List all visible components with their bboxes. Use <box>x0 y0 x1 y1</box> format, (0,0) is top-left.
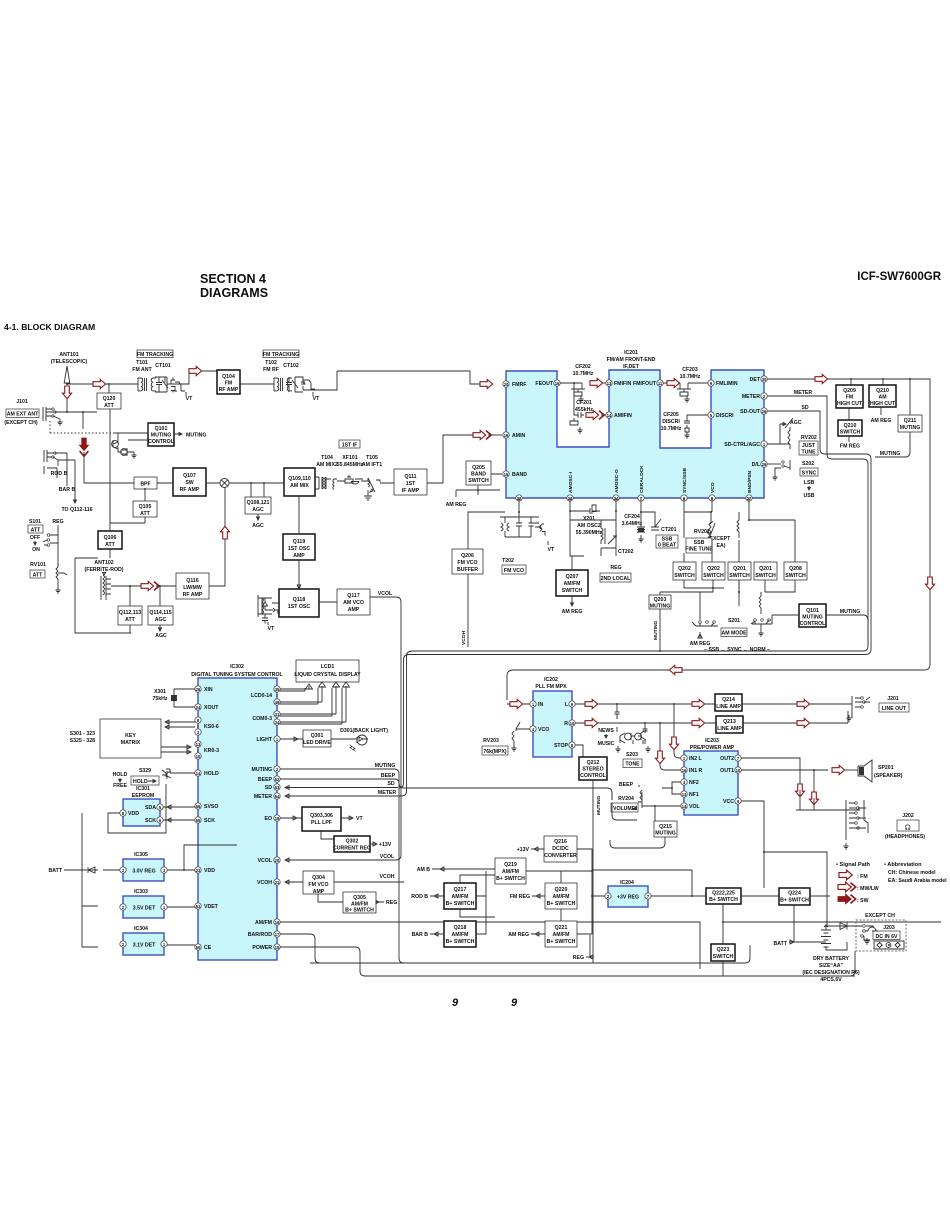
pin 15 BAND <box>503 471 509 477</box>
svg-text:RV101: RV101 <box>30 562 46 568</box>
svg-text:ROD B: ROD B <box>51 471 68 477</box>
svg-text:RF AMP: RF AMP <box>219 387 239 393</box>
svg-text:J101: J101 <box>16 399 28 405</box>
Q118 1ST OSC <box>279 589 319 617</box>
svg-text:MUTING: MUTING <box>840 609 860 615</box>
COM0-3 pins <box>274 711 280 717</box>
svg-text:VDET: VDET <box>204 904 219 910</box>
svg-text:CT101: CT101 <box>155 363 171 369</box>
svg-text:SSB: SSB <box>694 540 705 546</box>
AM osc tank <box>570 520 617 548</box>
varactor 2 <box>295 377 305 392</box>
svg-text:B+ SWITCH: B+ SWITCH <box>780 898 809 904</box>
svg-text:DIAGRAMS: DIAGRAMS <box>200 286 268 300</box>
svg-text:B+ SWITCH: B+ SWITCH <box>547 901 576 907</box>
svg-text:LCD0-14: LCD0-14 <box>251 693 272 699</box>
svg-text:Q205: Q205 <box>472 465 485 471</box>
svg-text:AGC: AGC <box>155 617 167 623</box>
svg-text:RF AMP: RF AMP <box>180 487 200 493</box>
FM arrow into 9 <box>667 378 680 387</box>
varactor VT <box>167 377 175 393</box>
svg-text:FM VCO: FM VCO <box>504 568 524 574</box>
R out <box>575 722 716 724</box>
Q301 LED DRIVE <box>303 730 331 747</box>
svg-text:Q215: Q215 <box>659 824 672 830</box>
svg-text:SWITCH: SWITCH <box>703 573 724 579</box>
svg-text:Q104: Q104 <box>222 374 235 380</box>
svg-text:VCOH: VCOH <box>461 630 467 645</box>
svg-text:0 BEAT: 0 BEAT <box>658 543 677 549</box>
svg-text:AM/FM: AM/FM <box>502 869 519 875</box>
svg-text:CE: CE <box>204 945 212 951</box>
svg-text:PRE/POWER AMP: PRE/POWER AMP <box>690 745 735 751</box>
svg-text:POWER: POWER <box>252 945 272 951</box>
svg-text:Q114,115: Q114,115 <box>149 610 171 616</box>
svg-text:ATT: ATT <box>104 403 115 409</box>
svg-text:FM/AM FRONT-END: FM/AM FRONT-END <box>607 357 656 363</box>
jack rod/bar symbol <box>44 450 55 462</box>
svg-text:MUTING: MUTING <box>653 621 659 640</box>
svg-text:VCO: VCO <box>538 727 549 733</box>
Q305 AM/FM B+ SWITCH <box>343 892 376 913</box>
svg-text:FM: FM <box>846 395 854 401</box>
Q210 AM HIGH CUT <box>869 385 896 407</box>
svg-text:BAR B: BAR B <box>59 487 76 493</box>
pin 52 BEEP <box>274 776 280 782</box>
Q205 BAND SWITCH <box>466 461 491 485</box>
Q219 AM/FM B+ SWITCH <box>495 858 526 884</box>
pin 16 AM/FM <box>274 919 280 925</box>
svg-text:BPF: BPF <box>140 482 150 488</box>
pin 20 VCOL <box>274 857 280 863</box>
svg-text:METER: METER <box>742 394 760 400</box>
svg-text:ATT: ATT <box>33 573 44 579</box>
svg-text:+3V REG: +3V REG <box>617 895 639 901</box>
pin 51 VDET <box>195 903 201 909</box>
Q117 AM VCO AMP <box>337 589 370 615</box>
pin 30 DET <box>761 376 767 382</box>
svg-text:Q305: Q305 <box>353 895 366 901</box>
svg-text:SD: SD <box>801 405 808 411</box>
svg-text:Q303,306: Q303,306 <box>310 813 333 819</box>
svg-text:SVSO: SVSO <box>204 804 218 810</box>
svg-text:Q108,121: Q108,121 <box>247 500 270 506</box>
svg-text:SCK: SCK <box>145 818 156 824</box>
svg-text:CONTROL: CONTROL <box>580 773 606 779</box>
Q216 DC/DC CONVERTER <box>544 836 577 862</box>
svg-text:IC203: IC203 <box>705 738 719 744</box>
AGC up arrow red <box>220 526 229 539</box>
svg-text:LW/MW: LW/MW <box>183 585 202 591</box>
pin 11 FMIFOUT <box>657 380 663 386</box>
svg-text:T202: T202 <box>502 558 514 564</box>
pin 56 SVSO <box>195 803 201 809</box>
svg-text:ATT: ATT <box>105 542 116 548</box>
svg-text:15: 15 <box>275 945 280 950</box>
VCC down to power rail <box>741 801 827 926</box>
svg-text:LINE AMP: LINE AMP <box>716 704 741 710</box>
svg-text:LINE AMP: LINE AMP <box>717 726 742 732</box>
svg-text:METER: METER <box>378 790 396 796</box>
svg-text:30: 30 <box>762 377 767 382</box>
Q208 SWITCH <box>784 562 807 580</box>
svg-text:ANT102: ANT102 <box>94 560 113 566</box>
svg-text:BAR B: BAR B <box>412 932 429 938</box>
OUT2 wire <box>741 758 800 790</box>
pin 1 LIGHT <box>274 736 280 742</box>
svg-text:Q111: Q111 <box>404 474 416 480</box>
svg-text:MUTING: MUTING <box>186 433 206 439</box>
svg-text:10.7MHz: 10.7MHz <box>680 374 701 380</box>
jack J101 symbol <box>43 407 54 421</box>
svg-text:IN2 L: IN2 L <box>689 756 703 762</box>
Q118 tank <box>258 595 279 624</box>
FM arrow on DET <box>815 374 828 383</box>
svg-text:13: 13 <box>607 381 612 386</box>
svg-text:COM0-3: COM0-3 <box>252 716 272 722</box>
svg-text:19: 19 <box>275 816 280 821</box>
svg-text:VT: VT <box>548 547 555 553</box>
1ST IF label <box>339 440 360 448</box>
svg-text:MUSIC: MUSIC <box>598 741 615 747</box>
op IC201 FM/AM front-end block <box>506 370 764 498</box>
pin 24 XOUT <box>195 704 201 710</box>
svg-text:IF AMP: IF AMP <box>402 488 420 494</box>
svg-text:Q201: Q201 <box>759 566 772 572</box>
svg-text:VT: VT <box>313 396 320 402</box>
svg-text:DIGITAL TUNING SYSTEM CONTROL: DIGITAL TUNING SYSTEM CONTROL <box>191 672 283 678</box>
svg-text:VT: VT <box>268 626 275 632</box>
svg-text:: SW: : SW <box>857 898 869 904</box>
DC jack symbol <box>874 941 904 949</box>
svg-text:T101: T101 <box>136 360 148 366</box>
svg-text:HOLD: HOLD <box>133 779 148 785</box>
svg-text:USB: USB <box>804 493 815 499</box>
svg-text:10.7MHz: 10.7MHz <box>661 426 682 432</box>
T102 transformer <box>274 378 292 391</box>
svg-text:4PCS,6V: 4PCS,6V <box>820 977 842 983</box>
svg-text:55.390MHz: 55.390MHz <box>576 530 603 536</box>
svg-text:+13V: +13V <box>517 847 530 853</box>
svg-text:SWITCH: SWITCH <box>674 573 695 579</box>
Q108,121 AGC <box>245 497 271 514</box>
svg-text:Q202: Q202 <box>707 566 720 572</box>
svg-text:FMLIMIN: FMLIMIN <box>716 381 738 387</box>
svg-text:SD-CTRL/AGC: SD-CTRL/AGC <box>724 442 760 448</box>
svg-text:Q109,110: Q109,110 <box>288 476 311 482</box>
svg-text:AMOSC-I: AMOSC-I <box>568 471 574 493</box>
svg-text:AM/FM: AM/FM <box>452 894 469 900</box>
pin 26 SD-OUT <box>761 408 767 414</box>
pin 15 POWER <box>274 944 280 950</box>
svg-text:FM VCO: FM VCO <box>308 882 328 888</box>
Q101 MUTING CONTROL <box>148 423 174 446</box>
svg-text:76k(MPX): 76k(MPX) <box>483 749 507 755</box>
svg-text:FM RF: FM RF <box>263 367 279 373</box>
svg-text:Q206: Q206 <box>461 553 474 559</box>
Q116 LW/MW RF AMP <box>176 573 209 599</box>
svg-text:10: 10 <box>736 768 741 773</box>
2ND LOCAL <box>600 573 631 582</box>
svg-text:(IEC DESIGNATION R6): (IEC DESIGNATION R6) <box>802 970 860 976</box>
svg-text:15: 15 <box>504 472 509 477</box>
pin 19 AMIN <box>503 432 509 438</box>
svg-text:AMIFIN: AMIFIN <box>614 413 632 419</box>
svg-text:VCOL: VCOL <box>380 854 395 860</box>
pin6 RV201 <box>684 498 713 535</box>
svg-text:BUFFER: BUFFER <box>457 567 478 573</box>
Q203 MUTING <box>649 595 671 609</box>
Q212 STEREO CONTROL <box>579 757 607 780</box>
svg-text:SD-OUT: SD-OUT <box>740 409 761 415</box>
svg-text:DISCRI: DISCRI <box>662 419 680 425</box>
svg-text:CF203: CF203 <box>682 367 698 373</box>
svg-text:SYNC/SSB: SYNC/SSB <box>682 468 688 493</box>
svg-text:AM/FM: AM/FM <box>452 932 469 938</box>
svg-text:Q106: Q106 <box>104 535 117 541</box>
svg-text:AM/FM: AM/FM <box>564 581 581 587</box>
svg-text:13: 13 <box>196 742 201 747</box>
CT101 trimmer <box>153 377 167 392</box>
red down arrows to phones <box>795 784 804 797</box>
svg-text:9: 9 <box>511 997 518 1009</box>
svg-text:AM REG: AM REG <box>508 932 529 938</box>
pin 23 VDD <box>195 867 201 873</box>
svg-text:FM TRACKING: FM TRACKING <box>263 352 299 358</box>
svg-text:VCOL: VCOL <box>258 858 273 864</box>
svg-text:HOLD: HOLD <box>204 771 219 777</box>
svg-text:CONTROL: CONTROL <box>800 621 826 627</box>
svg-text:9: 9 <box>452 997 459 1009</box>
svg-text:XOUT: XOUT <box>204 705 219 711</box>
svg-text:AM REG: AM REG <box>446 502 467 508</box>
svg-text:EO: EO <box>265 816 273 822</box>
svg-text:11: 11 <box>658 381 663 386</box>
svg-text:10: 10 <box>570 721 575 726</box>
svg-text:SWITCH: SWITCH <box>755 573 776 579</box>
svg-text:DC IN 6V: DC IN 6V <box>876 934 898 940</box>
bottom long rails <box>310 945 855 976</box>
LCD0-14 pins <box>274 686 280 692</box>
svg-text:AMIN: AMIN <box>512 433 526 439</box>
red left arrow on rail <box>669 665 682 674</box>
svg-text:16: 16 <box>275 920 280 925</box>
svg-text:MUTING: MUTING <box>802 615 822 621</box>
wire T101 to Q104 <box>167 383 187 385</box>
svg-text:21: 21 <box>275 880 280 885</box>
svg-text:50: 50 <box>196 945 201 950</box>
svg-text:Q214: Q214 <box>722 697 735 703</box>
pin 14 HOLD <box>195 770 201 776</box>
svg-text:Q117: Q117 <box>347 593 360 599</box>
Q104 FM RF AMP <box>217 370 240 394</box>
svg-text:Q101: Q101 <box>155 426 168 432</box>
Q101 MUTING CONTROL right <box>799 604 826 627</box>
signal arrow down from antenna <box>62 386 71 399</box>
Q302 CURRENT REG <box>334 836 370 852</box>
svg-text:MUTING: MUTING <box>375 763 395 769</box>
svg-text:FM REG: FM REG <box>510 894 530 900</box>
svg-text:IF,DET: IF,DET <box>623 364 640 370</box>
XF101 symbol <box>337 475 363 484</box>
svg-text:BATT: BATT <box>49 868 63 874</box>
svg-text:SWITCH: SWITCH <box>729 573 750 579</box>
J201 LINE OUT jack <box>852 696 863 718</box>
svg-text:31: 31 <box>275 712 280 717</box>
svg-text:DISCRI: DISCRI <box>716 413 734 419</box>
mixer <box>220 479 229 488</box>
svg-text:NF2: NF2 <box>689 780 699 786</box>
svg-text:Q105: Q105 <box>139 504 152 510</box>
svg-text:VOLUME: VOLUME <box>613 806 636 812</box>
svg-text:CF201: CF201 <box>576 400 592 406</box>
svg-text:METER: METER <box>254 794 272 800</box>
svg-text:PLL FM MPX: PLL FM MPX <box>535 684 567 690</box>
pin 17 BAR/ROD <box>274 931 280 937</box>
svg-text:BEEP: BEEP <box>619 782 634 788</box>
CT102 trimmer <box>286 377 298 392</box>
svg-text:REG: REG <box>386 900 397 906</box>
svg-text:CONTROL: CONTROL <box>148 439 174 445</box>
svg-text:3.5V DET: 3.5V DET <box>133 906 156 912</box>
wire antenna node <box>67 412 97 429</box>
svg-text:🎧: 🎧 <box>905 824 912 831</box>
FM arrow into IN <box>510 699 523 708</box>
Q224 B+ SWITCH <box>779 888 810 905</box>
svg-text:CH: Chinese model: CH: Chinese model <box>888 870 936 876</box>
Q221 AM/FM B+ SWITCH <box>545 921 577 947</box>
svg-text:HIGH CUT: HIGH CUT <box>837 401 863 407</box>
svg-text:CERALOCK: CERALOCK <box>639 465 645 493</box>
svg-text:Q120: Q120 <box>103 396 116 402</box>
svg-text:BATT: BATT <box>774 941 788 947</box>
svg-text:JUST: JUST <box>802 443 816 449</box>
svg-text:IC302: IC302 <box>230 664 244 670</box>
svg-text:Q223: Q223 <box>717 947 730 953</box>
svg-text:(HEADPHONES): (HEADPHONES) <box>885 834 925 840</box>
svg-text:BEEP: BEEP <box>258 777 273 783</box>
svg-text:SD: SD <box>265 785 272 791</box>
svg-text:S325 - 328: S325 - 328 <box>70 738 95 744</box>
pin 14 AMIFIN <box>606 412 612 418</box>
svg-text:AMP: AMP <box>313 889 325 895</box>
svg-text:Q203: Q203 <box>654 597 667 603</box>
Q222,225 B+ SWITCH <box>706 888 741 904</box>
svg-text:CT102: CT102 <box>283 363 299 369</box>
FM TRACKING label 2 <box>263 350 299 358</box>
svg-text:J202: J202 <box>902 813 914 819</box>
Q201 SWITCH a <box>728 562 751 580</box>
arrow into 13 <box>590 378 603 387</box>
svg-text:SWITCH: SWITCH <box>785 573 806 579</box>
svg-text:X201: X201 <box>583 516 595 522</box>
svg-text:I: I <box>197 748 198 753</box>
svg-text:FMIFOUT: FMIFOUT <box>633 381 657 387</box>
svg-text:FREE: FREE <box>113 783 127 789</box>
svg-text:I: I <box>276 693 277 698</box>
svg-text:Q210: Q210 <box>876 388 889 394</box>
svg-text:SCK: SCK <box>204 818 215 824</box>
svg-text:VCOH: VCOH <box>380 874 395 880</box>
pin 5 DISCRI <box>708 412 714 418</box>
svg-text:VCO: VCO <box>710 482 716 493</box>
svg-text:S201: S201 <box>728 618 740 624</box>
svg-text:AM REG: AM REG <box>562 609 583 615</box>
Q211 MUTING <box>898 415 922 432</box>
svg-text:LIQUID CRYSTAL DISPLAY: LIQUID CRYSTAL DISPLAY <box>294 672 361 678</box>
svg-text:10: 10 <box>196 754 201 759</box>
svg-text:AM MODE: AM MODE <box>721 631 747 637</box>
svg-text:BEEP: BEEP <box>381 773 396 779</box>
svg-text:CT202: CT202 <box>618 549 634 555</box>
svg-text:S203: S203 <box>626 752 638 758</box>
svg-text:SYNC: SYNC <box>802 471 817 477</box>
svg-text:(SPEAKER): (SPEAKER) <box>874 773 903 779</box>
svg-text:T105: T105 <box>366 455 378 461</box>
svg-text:55: 55 <box>196 818 201 823</box>
svg-text:RF AMP: RF AMP <box>183 592 203 598</box>
svg-text:RV203: RV203 <box>483 738 499 744</box>
long mid rails <box>659 650 661 652</box>
svg-text:S329: S329 <box>139 768 151 774</box>
svg-text:BAND: BAND <box>471 472 486 478</box>
pin 29 D/L <box>761 461 767 467</box>
IC302 block <box>198 678 277 960</box>
Q106 ATT <box>98 531 122 549</box>
svg-text:SDA: SDA <box>145 805 156 811</box>
svg-text:53: 53 <box>275 785 280 790</box>
svg-text:4-1. BLOCK DIAGRAM: 4-1. BLOCK DIAGRAM <box>4 322 95 332</box>
svg-text:ATT: ATT <box>140 511 151 517</box>
svg-text:AM EXT ANT: AM EXT ANT <box>7 412 39 418</box>
svg-text:Q304: Q304 <box>312 875 325 881</box>
FM signal arrow right <box>93 379 106 388</box>
svg-text:B+ SWITCH: B+ SWITCH <box>547 939 576 945</box>
svg-text:MATRIX: MATRIX <box>121 740 141 746</box>
svg-text:VT: VT <box>356 816 363 822</box>
svg-text:19: 19 <box>504 433 509 438</box>
svg-text:Q213: Q213 <box>723 719 736 725</box>
MW arrow to Q116 <box>141 581 154 590</box>
svg-text:IC201: IC201 <box>624 350 638 356</box>
svg-text:49: 49 <box>275 700 280 705</box>
svg-text:Q201: Q201 <box>733 566 746 572</box>
Q220 AM/FM B+ SWITCH <box>545 883 577 909</box>
svg-text:16: 16 <box>682 768 687 773</box>
svg-text:AMP: AMP <box>293 553 305 559</box>
OUT1 wire to speaker <box>741 769 828 771</box>
svg-text:RV204: RV204 <box>618 796 634 802</box>
Q215 MUTING <box>654 821 677 837</box>
T105 <box>361 478 380 492</box>
wire into T101 <box>67 383 97 385</box>
svg-text:B+ SWITCH: B+ SWITCH <box>709 897 738 903</box>
svg-text:AM/FM: AM/FM <box>553 894 570 900</box>
svg-text:AM MIX: AM MIX <box>290 483 309 489</box>
svg-text:29: 29 <box>762 462 767 467</box>
svg-text:3.64MHz: 3.64MHz <box>622 521 643 527</box>
svg-text:+13V: +13V <box>379 842 392 848</box>
pin 9 FMLIMIN <box>708 380 714 386</box>
svg-text:AM: AM <box>878 395 886 401</box>
svg-text:IC202: IC202 <box>544 677 558 683</box>
svg-text:LINE OUT: LINE OUT <box>882 706 907 712</box>
svg-text:CONVERTER: CONVERTER <box>544 853 577 859</box>
pin 26 XIN <box>195 686 201 692</box>
svg-text:• Signal Path: • Signal Path <box>836 862 871 868</box>
pin 19 EO <box>274 815 280 821</box>
svg-text:MUTING: MUTING <box>880 451 900 457</box>
